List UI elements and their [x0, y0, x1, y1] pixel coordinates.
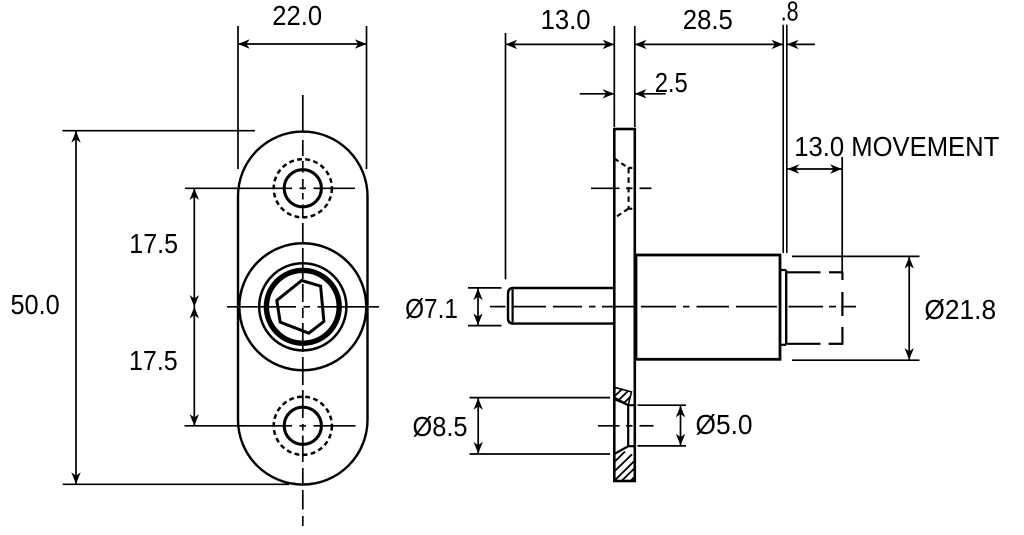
nose stub top edge [780, 269, 786, 271]
dimension .8 extension lines [782, 25, 784, 253]
plunger pin (side view) [508, 288, 614, 324]
cylinder face circle [259, 263, 346, 350]
flange top hole centerline [591, 187, 620, 189]
countersink cone top slant [614, 398, 628, 406]
movement dimension line with arrows [788, 168, 842, 170]
dimension 13.0 line with arrows [506, 43, 615, 45]
bottom screw hole (solid circle) [284, 407, 321, 444]
main horizontal centerline (side view) [490, 306, 506, 308]
extended nose top edge (phantom dashed) [788, 271, 821, 273]
dimension 50.0 extension lines [62, 130, 255, 132]
flange plate (side view) [614, 129, 635, 481]
dimension .8 arrow (from right) [787, 43, 815, 45]
hex socket [277, 281, 324, 334]
bottom screw hole centerline (horizontal) [185, 425, 293, 427]
top screw hole countersink (dashed circle) [274, 159, 332, 217]
dimension Ø7.1 line with arrows [477, 288, 479, 326]
movement dimension extension line [841, 157, 843, 272]
plate outline (front view, stadium shape) [238, 132, 368, 485]
extended nose bottom edge (phantom dashed) [788, 343, 821, 345]
dimension Ø5.0 line with arrows [680, 406, 682, 446]
svg-text:50.0: 50.0 [11, 289, 60, 320]
dimension 17.5 lower line with arrows [193, 307, 195, 426]
svg-text:17.5: 17.5 [129, 345, 178, 376]
svg-text:Ø5.0: Ø5.0 [696, 409, 753, 440]
bottom screw hole countersink (dashed circle) [274, 397, 332, 455]
svg-text:Ø21.8: Ø21.8 [924, 294, 996, 325]
upper section hatch region [614, 387, 631, 405]
hex socket chamfer ring (thick) [266, 270, 339, 343]
bore horizontal edges [628, 404, 635, 406]
dimension 50.0 line with arrows [75, 131, 77, 484]
dimension Ø21.8 extension lines [792, 255, 920, 257]
flange bottom hole centerline [598, 425, 620, 427]
dimension 28.5 line with arrows [635, 43, 783, 45]
dimension Ø5.0 extension lines [638, 404, 687, 406]
flange face extension lines [613, 26, 615, 127]
dimension 2.5 right arrow [635, 93, 666, 95]
svg-text:13.0 MOVEMENT: 13.0 MOVEMENT [794, 131, 999, 162]
boss outer circle [239, 243, 366, 370]
svg-text:22.0: 22.0 [272, 0, 322, 31]
dimension 17.5 upper line with arrows [193, 188, 195, 306]
countersink cone bottom slant [614, 446, 628, 454]
hidden hole bore edge (dashed vertical) [628, 168, 630, 209]
dimension Ø7.1 extension lines [468, 287, 502, 289]
dimension 2.5 left arrow [580, 93, 615, 95]
boss centerline (horizontal) [227, 306, 296, 308]
lower section hatch region [614, 446, 635, 481]
plunger pin chamfer line [511, 290, 513, 323]
extended nose right edge (phantom dashed) [841, 272, 843, 280]
hidden countersunk hole (top, dashed) cone slants [614, 159, 628, 168]
top screw hole centerline (horizontal) [185, 187, 292, 189]
dimension Ø8.5 extension lines [470, 397, 611, 399]
vertical centerline of plate [302, 95, 304, 133]
bore edge vertical line [627, 405, 629, 446]
top screw hole (solid circle) [284, 170, 321, 207]
dimension Ø21.8 line with arrows [908, 257, 910, 360]
nose stub bottom edge [780, 344, 786, 346]
svg-text:Ø8.5: Ø8.5 [413, 411, 468, 442]
svg-text:17.5: 17.5 [129, 228, 178, 259]
svg-text:13.0: 13.0 [541, 4, 591, 35]
dimension 22.0 line with arrows [238, 43, 367, 45]
svg-text:28.5: 28.5 [683, 4, 733, 35]
dimension 22.0 extension lines [237, 26, 239, 169]
dimension 13.0 extension line (pin tip) [505, 33, 507, 279]
dimension Ø8.5 line with arrows [477, 398, 479, 453]
svg-text:Ø7.1: Ø7.1 [405, 293, 458, 324]
nose stub face [785, 270, 787, 345]
hidden hole horizontal edges (dashed) [628, 167, 635, 169]
svg-text:2.5: 2.5 [655, 67, 688, 98]
svg-text:.8: .8 [781, 0, 799, 27]
lock body cylinder [636, 255, 780, 359]
